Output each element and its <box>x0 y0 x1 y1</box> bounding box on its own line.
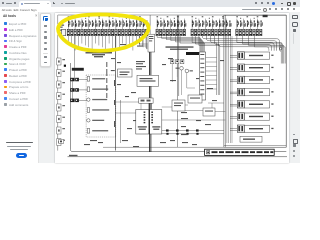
wire number dots top row <box>68 16 259 18</box>
wire bundle from TB2 to relay block <box>157 36 205 52</box>
capacitor bank row CHW CAP 2 <box>230 101 274 108</box>
relay output wires <box>172 64 195 95</box>
PLC label block left margin <box>58 25 65 31</box>
FT CAP 1 module box <box>137 75 159 86</box>
I/O module PTB2 <box>136 110 149 135</box>
pdf page <box>55 13 289 163</box>
input row 6 <box>87 129 108 134</box>
ground symbol right column <box>280 45 282 52</box>
right scrollbar hint <box>293 33 294 44</box>
left margin ladder terminals <box>57 58 61 146</box>
vertical feeder pair to module M2 <box>192 36 220 95</box>
floating tool strip <box>40 13 51 67</box>
relay coil K2 <box>185 69 189 73</box>
document canvas <box>38 12 300 163</box>
vertical bus pair W2 <box>149 52 151 152</box>
active browser tab <box>19 1 51 7</box>
terminal strip TB1 TB2 TB3 TB4 <box>67 29 262 35</box>
annotation pen overlap arc <box>60 36 96 51</box>
riser above pressure box <box>149 15 151 34</box>
promo button <box>16 153 28 158</box>
relay coil K1 <box>180 67 184 71</box>
wire from head detect <box>73 36 75 78</box>
input row 3 <box>87 98 107 101</box>
wire labels above FT CAP 1 <box>136 61 146 70</box>
catalog shaker relay label <box>166 46 194 49</box>
cabinet bottom inner line <box>103 146 224 148</box>
junction node <box>64 65 66 67</box>
capacitor bank row CHW CAP 1 <box>230 88 274 95</box>
tools sidebar <box>0 12 39 163</box>
head detect label <box>72 68 84 71</box>
wire risers above terminal strips <box>68 19 257 30</box>
capacitor bank row CHW CAP 5 <box>230 125 274 132</box>
relay cabinet outline <box>70 63 286 152</box>
wire merge from TB1 to bus W2 <box>139 36 149 48</box>
right cabinet enclosure <box>224 15 286 147</box>
aux box M3 <box>203 108 215 116</box>
schematic drawing <box>0 0 300 163</box>
node A marker bottom left <box>59 139 64 143</box>
cabinet feeder bus <box>227 36 232 143</box>
capacitor PT CAP 2 <box>240 136 262 142</box>
connector block pair row 2 <box>70 88 87 98</box>
node B1 label top right <box>263 15 268 17</box>
240VAC label <box>186 52 199 55</box>
terminal column X2 <box>199 52 205 100</box>
relay contact block <box>171 60 184 64</box>
title block <box>205 149 275 155</box>
bottom right page controls <box>291 133 299 159</box>
pressure transmitter box <box>148 34 155 52</box>
vertical trunk wire W1 <box>115 36 117 151</box>
browser tab bar <box>0 0 300 7</box>
I/O module PTB4 <box>150 110 162 135</box>
wire drops below terminal strip TB1 <box>68 36 146 51</box>
rotated tag right edge of enclosure <box>114 80 115 127</box>
terminal box above modules <box>139 98 153 103</box>
right cabinet inner bottom <box>224 144 286 146</box>
wire jumper set <box>208 103 224 108</box>
vertical wire left of modules <box>120 100 122 143</box>
stub wires from X2 to cabinet <box>206 58 217 90</box>
interconnect wires middle <box>116 102 226 120</box>
vertical feeder pair W3 <box>177 15 179 147</box>
input row 2 <box>87 87 108 92</box>
page drawing frame <box>58 15 286 151</box>
connector block pair row 3 <box>70 99 87 103</box>
rotated slot label text <box>106 62 107 98</box>
right cabinet inner edge <box>224 15 226 147</box>
acrobat menu bar <box>0 7 300 13</box>
FT CAP aux box <box>118 69 133 77</box>
capacitor bank row BOX CAP 3 <box>230 76 274 83</box>
capacitor bank row CHW CAP 3 <box>230 113 274 120</box>
scattered wire tag labels <box>84 44 224 147</box>
rack label text 1746-IA16 SLC <box>86 52 113 57</box>
capacitor bank row BOX CAP 2 <box>230 64 274 71</box>
promo card heading <box>6 142 33 144</box>
aux box M1 <box>172 100 185 111</box>
input list dashed enclosure <box>86 75 116 137</box>
bottom rail tag <box>69 155 78 156</box>
coil tag labels <box>176 68 193 72</box>
connector J1 left of TB1 <box>62 29 66 35</box>
input row 4 <box>87 108 109 113</box>
right panel icons <box>292 14 298 44</box>
wire labels near W3 bottom <box>181 112 188 135</box>
input row 1 <box>87 77 105 82</box>
terminal wire tag labels <box>68 20 263 26</box>
wire bundle from TB4 down to cap rows <box>237 36 285 64</box>
bottom cabinet rail <box>68 156 288 158</box>
connector block pair row 1 <box>70 78 87 88</box>
capacitor bank row BOX CAP 1 <box>230 52 274 59</box>
wire bundle from TB3 sweeping into right cabinet <box>202 36 279 51</box>
aux box M2 <box>188 95 202 103</box>
annotation highlight ellipse <box>58 14 149 50</box>
wire runs with inline connectors <box>162 131 224 134</box>
input row 5 <box>87 119 104 122</box>
